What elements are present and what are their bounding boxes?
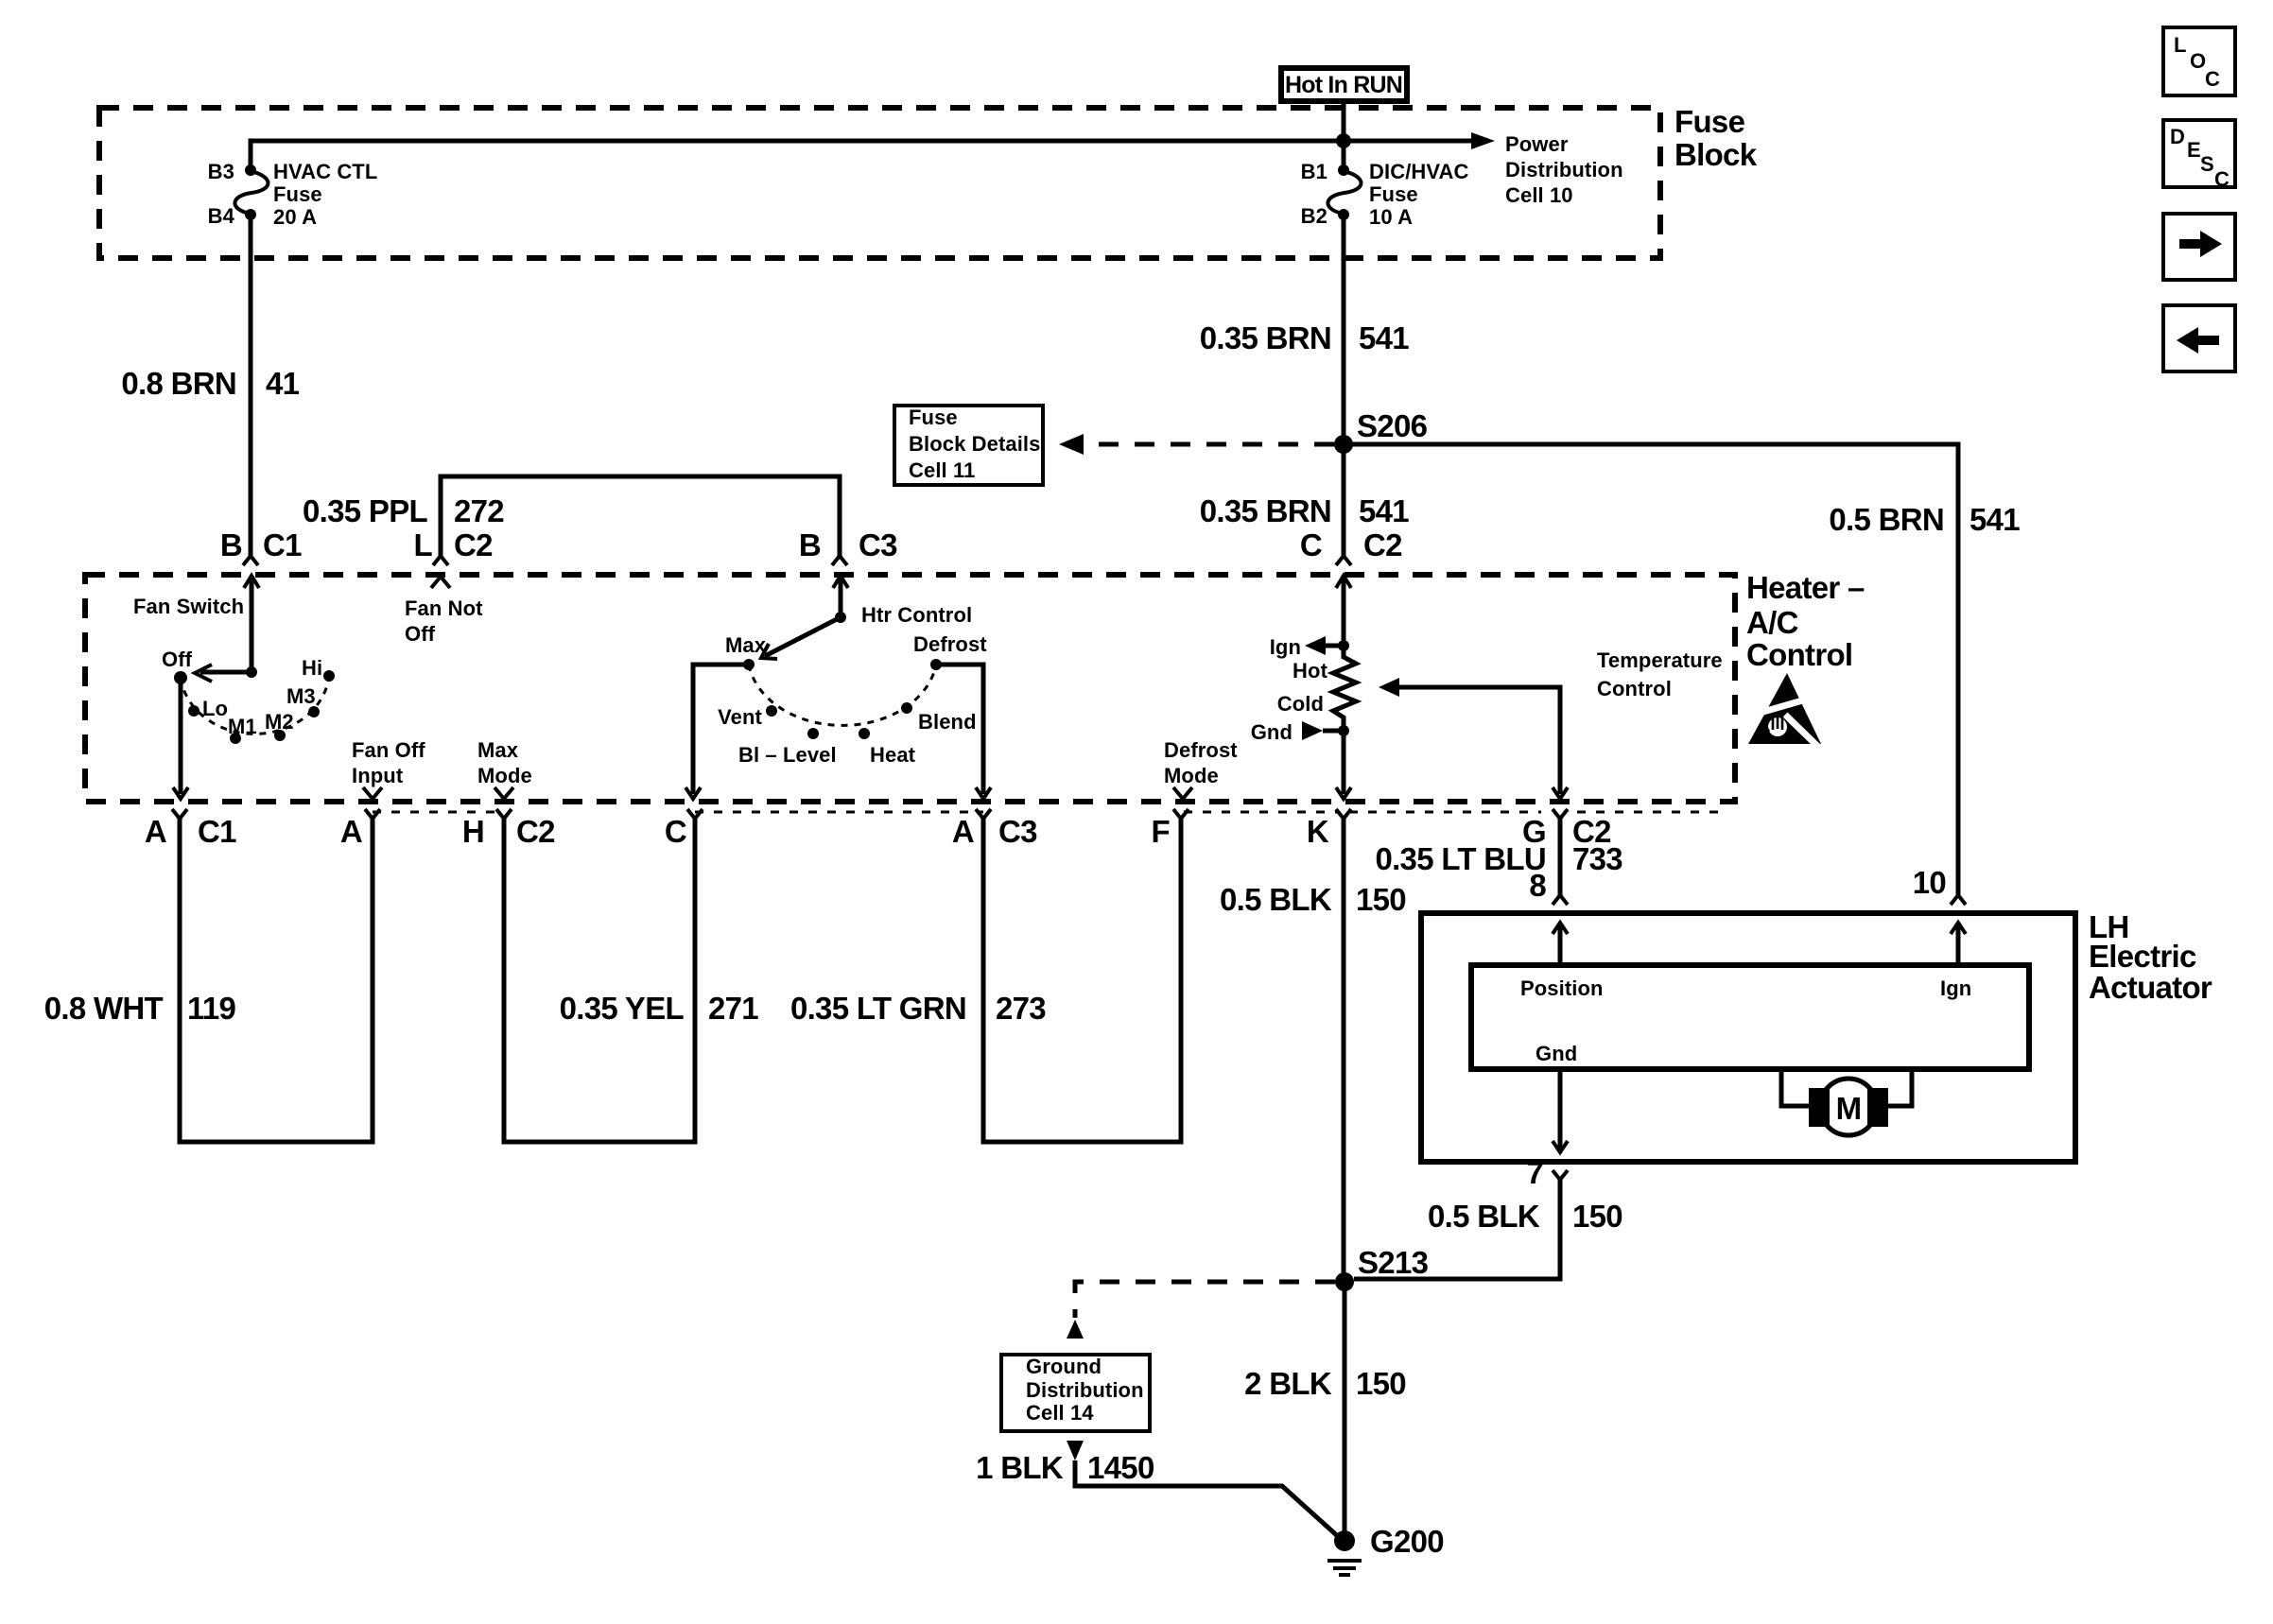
connector L C2	[414, 527, 494, 565]
motor M	[1781, 1069, 1912, 1135]
label 0.5 BLK 150 lower	[1428, 1199, 1622, 1234]
pin labels B1 B2	[1301, 160, 1327, 228]
svg-text:Cell 14: Cell 14	[1026, 1401, 1094, 1425]
svg-text:Fan Off: Fan Off	[352, 738, 425, 762]
svg-text:S213: S213	[1358, 1245, 1429, 1280]
svg-text:C: C	[1300, 527, 1322, 562]
label 2 BLK 150	[1244, 1366, 1406, 1401]
resistor temperature control	[1333, 646, 1356, 731]
label 0.35 BRN 541 upper	[1200, 320, 1410, 355]
htr control contact arc	[749, 665, 936, 725]
svg-text:Off: Off	[162, 648, 193, 671]
svg-text:M: M	[1836, 1091, 1862, 1126]
label DIC/HVAC Fuse 10 A	[1369, 160, 1469, 229]
svg-text:541: 541	[1359, 320, 1409, 355]
svg-text:E: E	[2187, 138, 2201, 162]
svg-text:B: B	[220, 527, 242, 562]
wire B3 to horizontal feed	[251, 141, 1344, 170]
svg-text:Control: Control	[1597, 677, 1672, 700]
wire 0.35 BRN 541 upper	[1342, 215, 1346, 556]
svg-text:Vent: Vent	[718, 705, 762, 729]
svg-text:0.8 WHT: 0.8 WHT	[44, 991, 164, 1026]
svg-text:B4: B4	[208, 204, 235, 228]
svg-text:0.35 YEL: 0.35 YEL	[560, 991, 685, 1026]
connector A (fan off input)	[340, 809, 380, 849]
pin labels B3 B4	[208, 160, 235, 228]
splice S206	[1334, 408, 1428, 454]
svg-text:10: 10	[1913, 865, 1946, 900]
svg-text:Mode: Mode	[477, 764, 532, 787]
node Ground Distribution Cell 14	[1001, 1355, 1150, 1431]
wire 0.35 LT BLU 733	[1558, 819, 1563, 895]
icon left-arrow box	[2163, 305, 2235, 371]
label 0.35 LT GRN 273	[790, 991, 1046, 1026]
Gnd tap	[1251, 720, 1349, 744]
svg-text:Gnd: Gnd	[1536, 1042, 1577, 1065]
svg-text:Hi: Hi	[302, 656, 322, 680]
connector A C3	[952, 809, 1037, 849]
contact Hi	[302, 656, 335, 682]
label 0.8 BRN 41	[121, 366, 299, 401]
svg-text:Fuse: Fuse	[1674, 104, 1745, 139]
svg-text:Electric: Electric	[2089, 939, 2196, 974]
label Fan Off Input with chevron	[352, 738, 425, 799]
fan switch wiper arrow to Off	[195, 665, 252, 682]
svg-text:Distribution: Distribution	[1505, 158, 1623, 181]
wire power distribution arrow	[1344, 132, 1495, 149]
contact M2	[265, 710, 294, 741]
icon LOC box	[2163, 27, 2235, 95]
svg-text:150: 150	[1356, 882, 1406, 917]
node Fuse Block Details Cell 11	[894, 406, 1043, 485]
svg-text:C: C	[2214, 167, 2230, 191]
actuator inner box	[1471, 965, 2029, 1069]
svg-text:Actuator: Actuator	[2089, 970, 2212, 1005]
wire 0.8 BRN 41	[249, 215, 253, 556]
ESD symbol	[1748, 673, 1821, 748]
connector G C2	[1522, 809, 1611, 849]
contact Max	[725, 633, 767, 670]
svg-text:Power: Power	[1505, 132, 1569, 156]
label 0.35 PPL 272	[303, 493, 504, 528]
svg-text:C1: C1	[263, 527, 302, 562]
svg-text:0.35 BRN: 0.35 BRN	[1200, 320, 1331, 355]
svg-text:L: L	[414, 527, 433, 562]
svg-text:Ign: Ign	[1270, 635, 1301, 659]
svg-text:K: K	[1307, 814, 1329, 849]
svg-text:0.8 BRN: 0.8 BRN	[121, 366, 236, 401]
wire 0.35 PPL 272	[441, 476, 840, 556]
svg-text:Fan Not: Fan Not	[405, 596, 483, 620]
contact Bl-Level	[738, 728, 837, 767]
svg-text:Distribution: Distribution	[1026, 1378, 1144, 1402]
svg-text:Fuse: Fuse	[273, 182, 322, 206]
connector F	[1152, 809, 1189, 849]
splice S213	[1335, 1245, 1429, 1291]
svg-text:0.35 PPL: 0.35 PPL	[303, 493, 428, 528]
svg-text:733: 733	[1572, 841, 1622, 876]
wire Max to C	[685, 665, 749, 799]
svg-text:272: 272	[454, 493, 504, 528]
svg-text:O: O	[2190, 49, 2206, 73]
arrow into fan switch	[244, 576, 259, 672]
svg-text:S: S	[2200, 152, 2214, 176]
wire 0.5 BLK 150 pin7 to S213	[1354, 1180, 1560, 1279]
pin 10 connector	[1913, 865, 1966, 905]
svg-text:C1: C1	[198, 814, 236, 849]
svg-text:Defrost: Defrost	[913, 632, 987, 656]
svg-text:Max: Max	[477, 738, 519, 762]
label Temperature Control	[1597, 648, 1723, 700]
svg-text:B3: B3	[208, 160, 234, 183]
svg-text:541: 541	[1969, 502, 2020, 537]
wire 0.35 LT GRN 273 loop	[983, 819, 1181, 1142]
fuse DIC/HVAC 10A	[1327, 164, 1361, 220]
Ign tap	[1270, 635, 1349, 659]
svg-text:Cell 11: Cell 11	[909, 458, 975, 482]
contact Blend	[901, 702, 977, 734]
svg-text:C2: C2	[516, 814, 555, 849]
label Power Distribution Cell 10	[1505, 132, 1623, 207]
icon right-arrow box	[2163, 214, 2235, 280]
svg-text:A: A	[952, 814, 974, 849]
dashed reference wire to ground distribution	[1067, 1282, 1335, 1339]
svg-text:C: C	[2205, 67, 2220, 91]
arrow into htr control	[833, 576, 848, 617]
label LH Electric Actuator	[2089, 909, 2212, 1005]
svg-text:150: 150	[1356, 1366, 1406, 1401]
connector C	[665, 809, 703, 849]
connector B C3	[799, 527, 897, 565]
svg-text:Blend: Blend	[918, 710, 977, 734]
svg-text:Fan Switch: Fan Switch	[133, 595, 244, 618]
svg-text:Fuse: Fuse	[909, 406, 958, 429]
fuse HVAC CTL 20A	[234, 164, 268, 220]
svg-text:F: F	[1152, 814, 1170, 849]
label 0.35 BRN 541 lower	[1200, 493, 1410, 528]
svg-text:2 BLK: 2 BLK	[1244, 1366, 1332, 1401]
svg-text:B1: B1	[1301, 160, 1327, 183]
svg-text:Defrost: Defrost	[1164, 738, 1238, 762]
svg-text:20 A: 20 A	[273, 205, 317, 229]
temperature wiper arrow	[1379, 678, 1568, 799]
label HVAC CTL Fuse 20 A	[273, 160, 377, 229]
connector K	[1307, 809, 1351, 849]
label 0.35 YEL 271	[560, 991, 759, 1026]
svg-text:A: A	[145, 814, 166, 849]
svg-text:D: D	[2170, 125, 2185, 148]
node Hot In RUN	[1281, 68, 1407, 101]
svg-text:0.35 LT BLU: 0.35 LT BLU	[1375, 841, 1546, 876]
fuse block dashed box	[99, 108, 1660, 258]
svg-text:Gnd: Gnd	[1251, 720, 1293, 744]
wire Off to A C1	[173, 678, 188, 799]
wire 1 BLK 1450	[1067, 1441, 1341, 1539]
svg-text:7: 7	[1526, 1155, 1543, 1190]
wire 0.8 WHT 119 loop	[180, 819, 373, 1142]
svg-text:0.5 BLK: 0.5 BLK	[1220, 882, 1332, 917]
svg-text:0.35 LT GRN: 0.35 LT GRN	[790, 991, 966, 1026]
svg-text:271: 271	[708, 991, 758, 1026]
svg-text:0.5 BRN: 0.5 BRN	[1829, 502, 1944, 537]
svg-text:0.35 BRN: 0.35 BRN	[1200, 493, 1331, 528]
label 0.35 LT BLU 733	[1375, 841, 1622, 876]
svg-text:M3: M3	[286, 684, 316, 708]
svg-text:Ign: Ign	[1940, 976, 1971, 1000]
svg-text:1 BLK: 1 BLK	[976, 1450, 1064, 1485]
label Max Mode with chevron	[477, 738, 532, 799]
wire 2 BLK 150	[1343, 1282, 1347, 1541]
svg-text:Hot In RUN: Hot In RUN	[1285, 72, 1402, 98]
connector B C1	[220, 527, 302, 565]
label 0.5 BRN 541	[1829, 502, 2020, 537]
svg-text:Control: Control	[1746, 637, 1852, 672]
svg-text:Hot: Hot	[1293, 659, 1328, 682]
label 0.8 WHT 119	[44, 991, 236, 1026]
contact Lo	[188, 697, 228, 720]
contact Defrost	[913, 632, 987, 670]
wire K down inside box	[1336, 731, 1351, 799]
svg-text:10 A: 10 A	[1369, 205, 1413, 229]
svg-text:150: 150	[1572, 1199, 1622, 1234]
contact Heat	[859, 728, 916, 767]
svg-text:C3: C3	[859, 527, 897, 562]
heater A/C control dashed box	[85, 575, 1735, 802]
svg-text:DIC/HVAC: DIC/HVAC	[1369, 160, 1469, 183]
svg-text:Fuse: Fuse	[1369, 182, 1418, 206]
wire 0.35 YEL 271 loop	[504, 819, 695, 1142]
svg-text:Input: Input	[352, 764, 404, 787]
wire hot feed down	[1342, 101, 1346, 170]
label 0.5 BLK 150	[1220, 882, 1406, 917]
svg-text:Position: Position	[1520, 976, 1604, 1000]
LH electric actuator box	[1421, 913, 2075, 1162]
arrow into temperature control	[1336, 576, 1351, 646]
contact Vent	[718, 705, 777, 729]
label Fan Not Off with chevron	[405, 577, 483, 646]
svg-text:Block: Block	[1674, 137, 1758, 172]
svg-text:H: H	[462, 814, 484, 849]
htr control wiper arrow to Max	[761, 617, 841, 659]
svg-text:G200: G200	[1370, 1524, 1444, 1559]
label 1 BLK 1450	[976, 1450, 1154, 1485]
svg-text:B: B	[799, 527, 821, 562]
svg-text:C3: C3	[998, 814, 1037, 849]
ground G200	[1327, 1524, 1444, 1575]
svg-text:C2: C2	[1363, 527, 1402, 562]
svg-text:Cold: Cold	[1277, 692, 1324, 716]
svg-text:Cell 10: Cell 10	[1505, 183, 1573, 207]
gnd wire out of inner box	[1553, 1069, 1568, 1152]
svg-text:119: 119	[187, 991, 235, 1026]
svg-text:C2: C2	[454, 527, 493, 562]
svg-text:Max: Max	[725, 633, 767, 657]
connector strip dashes	[373, 811, 1721, 814]
svg-text:Mode: Mode	[1164, 764, 1219, 787]
svg-text:L: L	[2174, 33, 2187, 57]
connector A C1	[145, 809, 236, 849]
svg-text:A: A	[340, 814, 362, 849]
svg-text:Htr Control: Htr Control	[861, 603, 972, 627]
svg-text:C: C	[665, 814, 686, 849]
connector C C2	[1300, 527, 1402, 565]
svg-text:M2: M2	[265, 710, 294, 734]
fan switch wiper junction	[246, 666, 257, 678]
contact M1	[228, 715, 257, 744]
pin 8 connector	[1529, 868, 1568, 905]
wire Defrost to A C3	[936, 665, 991, 799]
svg-text:0.5 BLK: 0.5 BLK	[1428, 1199, 1540, 1234]
svg-text:M1: M1	[228, 715, 257, 738]
svg-text:S206: S206	[1357, 408, 1428, 443]
pin 7 connector	[1526, 1155, 1568, 1190]
svg-text:1450: 1450	[1087, 1450, 1154, 1485]
fan switch contact arc	[181, 676, 329, 734]
svg-text:Ground: Ground	[1026, 1355, 1102, 1378]
pin 10 arrow inside	[1951, 923, 1966, 965]
icon DESC box	[2163, 120, 2235, 191]
dashed reference wire to fuse block details	[1059, 434, 1334, 455]
htr control wiper junction	[835, 603, 972, 627]
svg-text:541: 541	[1359, 493, 1409, 528]
label Fuse Block	[1674, 104, 1758, 172]
wire 0.5 BRN 541 from S206 to pin 10	[1344, 444, 1958, 895]
wire 0.5 BLK 150 to S213	[1342, 819, 1346, 1282]
svg-text:HVAC CTL: HVAC CTL	[273, 160, 377, 183]
svg-text:Heat: Heat	[870, 743, 916, 767]
svg-text:A/C: A/C	[1746, 605, 1798, 640]
svg-text:Lo: Lo	[202, 697, 228, 720]
contact M3	[286, 684, 320, 717]
svg-text:273: 273	[996, 991, 1046, 1026]
junction feed	[1336, 133, 1351, 148]
label Heater A/C Control	[1746, 570, 1865, 672]
svg-text:Heater –: Heater –	[1746, 570, 1865, 605]
contact Off	[162, 648, 193, 684]
label Defrost Mode with chevron	[1164, 738, 1238, 799]
svg-text:Off: Off	[405, 622, 436, 646]
svg-text:Block Details: Block Details	[909, 432, 1040, 456]
pin 8 arrow inside	[1553, 923, 1568, 965]
svg-text:B2: B2	[1301, 204, 1327, 228]
connector H C2	[462, 809, 555, 849]
svg-text:41: 41	[266, 366, 300, 401]
svg-text:Bl – Level: Bl – Level	[738, 743, 837, 767]
svg-text:Temperature: Temperature	[1597, 648, 1723, 672]
svg-text:8: 8	[1529, 868, 1546, 903]
